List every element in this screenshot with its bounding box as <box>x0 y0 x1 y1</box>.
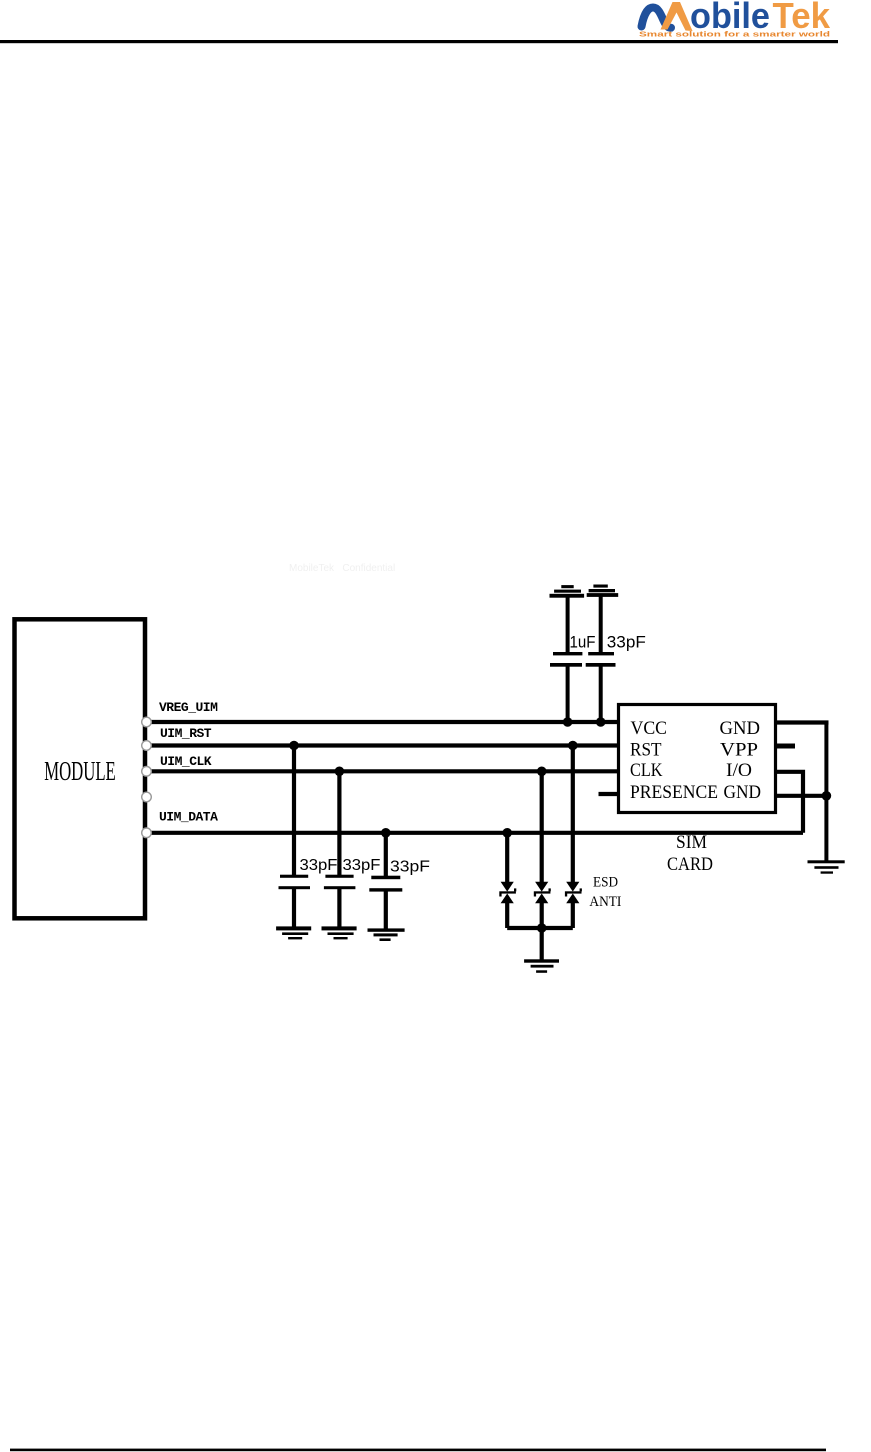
capacitor C 1uF <box>550 597 582 722</box>
svg-text:33pF: 33pF <box>343 857 381 874</box>
svg-text:CARD: CARD <box>667 854 713 875</box>
ground (DATA cap) <box>368 928 405 941</box>
node junction VREG/33pF <box>596 717 606 727</box>
svg-text:obile: obile <box>690 0 770 36</box>
wire right vertical GND net <box>824 723 828 862</box>
svg-text:GND: GND <box>724 783 762 803</box>
ground (RST cap) <box>276 926 311 939</box>
pin circle DATA <box>142 828 152 838</box>
svg-text:MobileTek Confidential: MobileTek Confidential <box>289 563 395 574</box>
svg-text:VREG_UIM: VREG_UIM <box>159 700 218 715</box>
header rule <box>0 40 838 43</box>
SIM card connector box <box>619 705 776 813</box>
svg-text:33pF: 33pF <box>607 633 646 652</box>
svg-text:1uF: 1uF <box>570 633 596 652</box>
wire GND bottom pin <box>776 794 826 798</box>
ground (CLK cap) <box>322 926 357 939</box>
stub VPP pin <box>777 744 795 749</box>
logo orange peak <box>661 2 693 31</box>
node junction RST/cap <box>289 741 299 751</box>
svg-text:I/O: I/O <box>726 761 752 781</box>
svg-text:MODULE: MODULE <box>44 756 116 786</box>
pin circle RST <box>142 741 152 751</box>
footer rule <box>10 1449 826 1452</box>
capacitor C 33pF (on RST) <box>279 746 311 928</box>
wire VREG_UIM net <box>148 720 619 724</box>
svg-text:UIM_CLK: UIM_CLK <box>160 754 212 769</box>
svg-text:PRESENCE: PRESENCE <box>630 783 718 803</box>
node junction RST/D3 <box>568 741 578 751</box>
node junction CLK/D2 <box>537 767 547 777</box>
wire ESD common rail <box>507 926 573 930</box>
svg-text:VCC: VCC <box>631 719 668 739</box>
pin circle CLK <box>142 767 152 777</box>
svg-text:33pF: 33pF <box>390 859 430 876</box>
module body MODULE <box>15 619 146 918</box>
pin circle VREG <box>142 717 152 727</box>
svg-text:Smart solution for a smarter w: Smart solution for a smarter world <box>639 32 830 39</box>
node junction rail <box>537 923 547 933</box>
svg-text:SIM: SIM <box>676 832 707 853</box>
logo MobileTek <box>639 0 831 39</box>
node junction CLK/cap <box>335 767 345 777</box>
logo blue wave <box>642 8 672 28</box>
capacitor C 33pF (on DATA) <box>369 833 402 929</box>
wire GND top pin to right vertical <box>776 720 829 724</box>
capacitor C 33pF (top) <box>586 597 616 723</box>
wire UIM_RST net <box>148 743 619 747</box>
wire UIM_CLK net <box>148 769 619 773</box>
node junction DATA/D1 <box>502 828 512 838</box>
ground (top, for 33pF cap) <box>587 585 619 597</box>
node junction DATA/cap <box>381 828 391 838</box>
ESD diode D3 (on RST) <box>565 746 582 929</box>
capacitor C 33pF (on CLK) <box>324 771 356 927</box>
wire I/O pin <box>776 772 803 833</box>
svg-text:CLK: CLK <box>630 761 663 781</box>
svg-text:VPP: VPP <box>720 741 758 761</box>
svg-text:UIM_DATA: UIM_DATA <box>159 810 218 825</box>
svg-text:RST: RST <box>630 741 662 761</box>
svg-text:ANTI: ANTI <box>589 894 621 910</box>
stub PRESENCE pin <box>599 792 618 796</box>
node junction GND <box>822 791 832 801</box>
ESD diode D2 (on CLK) <box>534 771 551 928</box>
ground (SIM right) <box>808 860 845 873</box>
ground (top, for 1uF cap) <box>550 585 585 598</box>
ESD diode D1 (on DATA) <box>499 833 516 928</box>
svg-text:UIM_RST: UIM_RST <box>160 726 212 741</box>
svg-text:GND: GND <box>720 719 761 739</box>
wire rail to ground <box>540 928 544 960</box>
svg-text:33pF: 33pF <box>300 857 338 874</box>
pin circle unused <box>142 792 152 802</box>
svg-text:ESD: ESD <box>593 875 618 891</box>
node junction VREG/1uF <box>563 717 573 727</box>
svg-text:Tek: Tek <box>773 0 831 36</box>
wire UIM_DATA net <box>148 831 803 835</box>
ground (ESD) <box>524 959 559 973</box>
